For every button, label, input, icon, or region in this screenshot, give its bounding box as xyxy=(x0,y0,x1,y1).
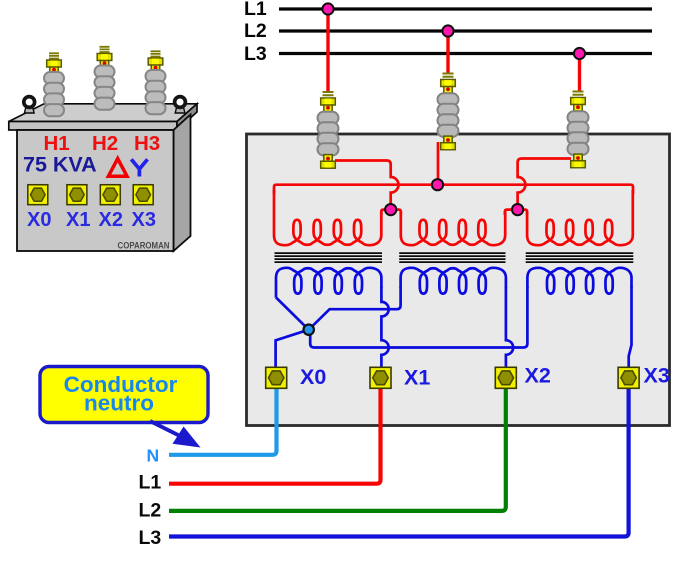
svg-text:neutro: neutro xyxy=(84,391,154,416)
svg-text:N: N xyxy=(147,446,160,466)
svg-text:L1: L1 xyxy=(139,472,162,494)
svg-text:L2: L2 xyxy=(244,20,267,42)
svg-text:H3: H3 xyxy=(134,132,160,155)
svg-text:L3: L3 xyxy=(244,43,267,65)
svg-text:L2: L2 xyxy=(139,499,162,521)
svg-text:L1: L1 xyxy=(244,0,267,20)
svg-text:L3: L3 xyxy=(139,527,162,549)
svg-text:X3: X3 xyxy=(644,364,670,388)
svg-text:75 KVA: 75 KVA xyxy=(23,153,97,177)
svg-text:X3: X3 xyxy=(132,209,156,231)
svg-text:X2: X2 xyxy=(525,364,551,388)
svg-text:COPAROMAN: COPAROMAN xyxy=(118,241,170,251)
svg-text:X1: X1 xyxy=(404,366,430,390)
svg-text:X0: X0 xyxy=(27,209,51,231)
svg-text:X1: X1 xyxy=(66,209,90,231)
svg-text:X2: X2 xyxy=(99,209,123,231)
svg-text:X0: X0 xyxy=(300,365,326,389)
